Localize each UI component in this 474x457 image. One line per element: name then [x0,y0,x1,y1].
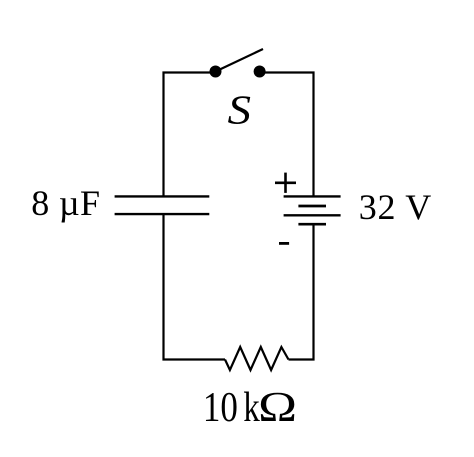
svg-text:Ω: Ω [258,385,297,431]
svg-text:S: S [228,87,252,133]
svg-text:10: 10 [203,385,238,431]
svg-text:32 V: 32 V [359,187,432,227]
svg-text:8 µF: 8 µF [31,183,100,223]
